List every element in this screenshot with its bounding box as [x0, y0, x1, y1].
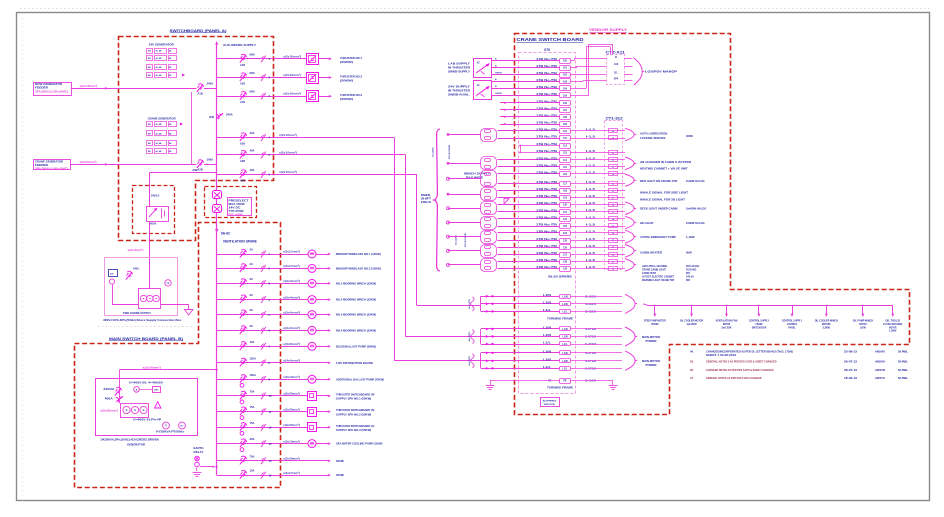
svg-text:40A: 40A — [250, 149, 255, 153]
svg-text:L1/B: L1/B — [562, 336, 567, 339]
svg-text:x(3x2.5mm²): x(3x2.5mm²) — [283, 250, 300, 254]
svg-text:A L 4B: A L 4B — [156, 50, 163, 53]
svg-text:X70: X70 — [544, 48, 550, 52]
svg-text:6A: 6A — [250, 277, 253, 281]
svg-text:240/2A: 240/2A — [103, 388, 114, 391]
svg-text:75A: 75A — [250, 389, 255, 393]
svg-text:L1/B: L1/B — [543, 358, 551, 361]
svg-text:L1/B: L1/B — [543, 334, 551, 337]
svg-text:TURNING FRAME: TURNING FRAME — [547, 387, 574, 390]
svg-text:17B No./TB: 17B No./TB — [536, 171, 557, 175]
svg-text:1,1KW: 1,1KW — [686, 235, 695, 239]
svg-text:L1/N: L1/N — [562, 328, 567, 331]
svg-text:HEATING CABINET + VALVE UNIT: HEATING CABINET + VALVE UNIT — [640, 167, 688, 171]
svg-text:U=400V 41-Ph-4P: U=400V 41-Ph-4P — [133, 419, 162, 422]
svg-text:x(3x35mm²): x(3x35mm²) — [283, 457, 300, 461]
svg-text:24V GENERATOR: 24V GENERATOR — [149, 43, 175, 47]
svg-text:17B No./TB: 17B No./TB — [536, 187, 557, 191]
svg-text:2x1,5(2C): 2x1,5(2C) — [433, 147, 435, 157]
svg-text:160A: 160A — [250, 373, 256, 377]
svg-text:4x1,5(2C): 4x1,5(2C) — [468, 331, 471, 341]
svg-text:CRANE CABIN LIGHT: CRANE CABIN LIGHT — [642, 268, 666, 271]
svg-text:125A: 125A — [250, 356, 256, 360]
svg-text:x(3x35mm²): x(3x35mm²) — [283, 423, 300, 427]
svg-text:BK: BK — [148, 67, 151, 69]
svg-text:x(3x6mm²): x(3x6mm²) — [283, 342, 300, 346]
svg-text:SHIFT: SHIFT — [421, 198, 432, 201]
svg-text:41: 41 — [615, 56, 618, 59]
svg-text:127: 127 — [563, 254, 568, 257]
svg-text:A1B: A1B — [240, 101, 245, 104]
svg-text:A L 4B: A L 4B — [156, 66, 163, 69]
svg-text:MIDSHIP WINDLASS NO.1 (15KW): MIDSHIP WINDLASS NO.1 (15KW) — [336, 252, 381, 256]
svg-text:4K: 4K — [169, 50, 172, 53]
svg-text:RED LIGHT ON CRANE TOP: RED LIGHT ON CRANE TOP — [640, 179, 678, 183]
svg-text:BK: BK — [148, 124, 151, 126]
svg-text:L1/B: L1/B — [562, 360, 567, 363]
svg-text:A2B: A2B — [240, 180, 245, 183]
svg-text:OIL TOOLS/: OIL TOOLS/ — [886, 319, 901, 323]
svg-text:CABIN HEATER: CABIN HEATER — [640, 251, 662, 255]
svg-text:SHEET 1 04-08-2013: SHEET 1 04-08-2013 — [706, 353, 737, 357]
svg-text:MOTOR: MOTOR — [889, 325, 896, 329]
svg-text:115: 115 — [563, 166, 568, 169]
svg-text:VENTILATION FAN: VENTILATION FAN — [716, 319, 738, 323]
svg-text:BK: BK — [148, 58, 151, 60]
svg-text:L1/L: L1/L — [543, 366, 552, 369]
svg-text:75A: 75A — [250, 454, 255, 458]
svg-text:113: 113 — [563, 152, 568, 155]
svg-text:106: 106 — [563, 102, 568, 105]
svg-text:SEA WATER COOLING PUMP (11KW): SEA WATER COOLING PUMP (11KW) — [336, 442, 382, 446]
svg-text:MAIN MOTOR: MAIN MOTOR — [642, 336, 660, 339]
svg-text:4K: 4K — [169, 123, 172, 126]
svg-text:BK: BK — [148, 75, 151, 77]
svg-text:SWBD-AUXIL.: SWBD-AUXIL. — [448, 93, 470, 96]
svg-text:S-271M: S-271M — [585, 367, 596, 370]
svg-text:107: 107 — [563, 109, 568, 112]
svg-text:122: 122 — [563, 218, 568, 221]
svg-text:A1B: A1B — [240, 64, 245, 67]
svg-text:(20KW): (20KW) — [340, 60, 353, 64]
svg-text:75A: 75A — [250, 405, 255, 409]
svg-text:240A: 240A — [226, 113, 233, 117]
svg-text:FWD SHORE SUPPLY: FWD SHORE SUPPLY — [123, 311, 151, 315]
svg-text:RELAY: RELAY — [194, 451, 205, 454]
svg-text:TURNING FRAME: TURNING FRAME — [547, 318, 574, 321]
svg-text:AUTO LUBRICATION: AUTO LUBRICATION — [640, 132, 667, 136]
svg-text:100A: 100A — [207, 158, 214, 162]
svg-text:OIL COOLER MOTOR: OIL COOLER MOTOR — [680, 319, 703, 323]
svg-text:NO.1 MOORING WINCH (22KW): NO.1 MOORING WINCH (22KW) — [336, 281, 376, 285]
svg-text:9A-92: 9A-92 — [221, 232, 230, 236]
svg-text:LAB SUPPLY: LAB SUPPLY — [448, 63, 470, 66]
svg-text:BK: BK — [148, 51, 151, 53]
svg-text:123: 123 — [563, 225, 568, 228]
svg-text:100: 100 — [563, 60, 568, 63]
svg-text:x(2x10mm²): x(2x10mm²) — [279, 151, 297, 155]
svg-text:04.: 04. — [690, 350, 694, 354]
svg-text:x(2x16mm²): x(2x16mm²) — [143, 365, 161, 369]
svg-text:121: 121 — [563, 211, 568, 214]
svg-text:4x1,5(2C): 4x1,5(2C) — [468, 356, 471, 366]
svg-text:N5A: N5A — [250, 90, 255, 94]
svg-text:118: 118 — [563, 190, 568, 193]
svg-text:101: 101 — [563, 67, 568, 70]
svg-text:SUNIL: SUNIL — [898, 350, 908, 354]
svg-text:2x40W HALOG: 2x40W HALOG — [686, 179, 705, 183]
svg-text:Hz: Hz — [181, 426, 185, 428]
svg-text:GN/YE: GN/YE — [495, 93, 502, 95]
svg-text:11KW: 11KW — [860, 325, 866, 329]
svg-text:128: 128 — [563, 261, 568, 264]
svg-text:G: G — [126, 409, 128, 412]
svg-text:MOTOR: MOTOR — [859, 322, 866, 326]
svg-text:A: A — [136, 388, 138, 391]
svg-text:24V DC: 24V DC — [229, 207, 242, 210]
svg-text:4x1,5(2C): 4x1,5(2C) — [468, 299, 471, 309]
svg-text:VENTILATION SPARE: VENTILATION SPARE — [223, 240, 258, 244]
svg-text:6A: 6A — [250, 293, 253, 297]
svg-text:N5A: N5A — [250, 71, 255, 75]
svg-text:380V,±10%,3Ph,(50Hz),Shore Sup: 380V,±10%,3Ph,(50Hz),Shore Supply Connec… — [103, 319, 182, 322]
svg-text:117: 117 — [563, 183, 568, 186]
svg-text:BILGE/BALLAST PUMP (30KW): BILGE/BALLAST PUMP (30KW) — [336, 344, 376, 348]
svg-text:DK35KVA,3Ph,(50HZ),415V,DIESEL: DK35KVA,3Ph,(50HZ),415V,DIESELDRIVEN — [101, 439, 159, 442]
svg-text:17B No./TB: 17B No./TB — [536, 201, 557, 205]
svg-text:POWER: POWER — [651, 322, 658, 326]
svg-text:4K: 4K — [169, 66, 172, 69]
svg-text:17B No./TB: 17B No./TB — [536, 180, 557, 184]
svg-text:x(2x16mm²): x(2x16mm²) — [283, 92, 301, 96]
svg-text:L1/B: L1/B — [543, 301, 551, 304]
svg-text:NO.4 MOORING WINCH (22KW): NO.4 MOORING WINCH (22KW) — [336, 328, 376, 332]
svg-text:OIL PUMP WINCH: OIL PUMP WINCH — [853, 319, 873, 323]
svg-text:FIELD: FIELD — [421, 201, 431, 204]
svg-text:17B No./TB: 17B No./TB — [536, 265, 557, 269]
svg-text:40A: 40A — [250, 168, 255, 172]
svg-text:A L 4B: A L 4B — [156, 57, 163, 60]
svg-text:P&S WIRE: P&S WIRE — [466, 177, 484, 180]
svg-text:GENERATOR: GENERATOR — [127, 444, 145, 447]
svg-text:CONTROL: CONTROL — [787, 322, 797, 326]
svg-text:x(2x16mm²): x(2x16mm²) — [283, 73, 301, 77]
svg-text:A L 4B: A L 4B — [156, 150, 163, 153]
svg-text:ANTI-ATOLL HEATING: ANTI-ATOLL HEATING — [642, 265, 667, 268]
svg-text:BK: BK — [148, 151, 151, 153]
svg-text:NO.3 MOORING WINCH (22KW): NO.3 MOORING WINCH (22KW) — [336, 313, 376, 317]
svg-text:SUNIL: SUNIL — [898, 360, 908, 364]
svg-text:CRANE GENERATOR: CRANE GENERATOR — [148, 117, 177, 121]
svg-text:x(3x4mm²): x(3x4mm²) — [283, 295, 300, 299]
svg-text:G: G — [134, 409, 136, 412]
svg-text:4K: 4K — [169, 57, 172, 60]
svg-text:SPARE: SPARE — [336, 473, 344, 477]
svg-text:L1/L: L1/L — [543, 309, 552, 312]
svg-text:L1/L: L1/L — [543, 342, 552, 345]
svg-text:18-06-13: 18-06-13 — [844, 376, 858, 380]
svg-text:1,5KW: 1,5KW — [889, 329, 897, 333]
svg-text:B: B — [495, 86, 497, 88]
svg-text:GENERAL NOTES 2 AS PER DPS CAP: GENERAL NOTES 2 AS PER DPS CAPS & SHEET … — [706, 360, 777, 364]
svg-text:A1B: A1B — [240, 83, 245, 86]
svg-text:AUX./SPARE SUPPLY: AUX./SPARE SUPPLY — [223, 43, 256, 47]
svg-text:240A: 240A — [133, 268, 139, 271]
svg-text:kWh: kWh — [154, 389, 159, 391]
svg-text:PANEL: PANEL — [788, 325, 796, 329]
svg-text:24V SUPPLY: 24V SUPPLY — [448, 85, 470, 88]
svg-text:L1/N: L1/N — [562, 295, 567, 298]
svg-text:WHALE SIGNAL FOR 2B LIGHT: WHALE SIGNAL FOR 2B LIGHT — [640, 198, 685, 202]
svg-text:ANSHU: ANSHU — [875, 360, 885, 364]
svg-text:(20KW): (20KW) — [340, 97, 353, 101]
svg-text:ANSTU: ANSTU — [875, 376, 885, 380]
svg-text:17B No./TB: 17B No./TB — [536, 135, 557, 139]
svg-text:2B LIGHT: 2B LIGHT — [640, 221, 654, 225]
svg-text:03.: 03. — [690, 360, 694, 364]
svg-text:17B No./TB: 17B No./TB — [536, 194, 557, 198]
svg-text:WHALE SIGNAL FOR SIDE LIGHT: WHALE SIGNAL FOR SIDE LIGHT — [640, 191, 688, 195]
svg-text:A2B: A2B — [240, 160, 245, 163]
svg-text:x(3x2.5mm²): x(3x2.5mm²) — [283, 471, 300, 475]
svg-text:17B No./TB: 17B No./TB — [536, 237, 557, 241]
svg-text:17B No./TB: 17B No./TB — [536, 258, 557, 262]
svg-text:L1/N: L1/N — [543, 294, 551, 297]
svg-text:17B No./TB: 17B No./TB — [536, 128, 557, 132]
svg-text:x(3x2.5mm²): x(3x2.5mm²) — [283, 264, 300, 268]
svg-text:110V DISTRIBUTION BOARD: 110V DISTRIBUTION BOARD — [336, 361, 374, 365]
svg-text:GENERAL NOTES AS PER DPS CAPS: GENERAL NOTES AS PER DPS CAPS CHANGED — [706, 376, 762, 380]
svg-text:10A: 10A — [250, 469, 255, 473]
svg-text:109: 109 — [563, 123, 568, 126]
svg-text:119: 119 — [563, 197, 568, 200]
svg-text:MIDSHIP WINDLASS NO.2 (15KW): MIDSHIP WINDLASS NO.2 (15KW) — [336, 266, 381, 270]
svg-text:x(2x4mm²): x(2x4mm²) — [128, 248, 144, 252]
svg-text:6A: 6A — [250, 308, 253, 312]
svg-text:108: 108 — [563, 116, 568, 119]
svg-text:PE: PE — [167, 283, 170, 285]
svg-text:75A: 75A — [250, 421, 255, 425]
svg-text:230V+CLEAN: 230V+CLEAN — [686, 265, 699, 268]
svg-text:SWITCHGEAR: SWITCHGEAR — [752, 325, 767, 329]
svg-text:x(4x4mm²): x(4x4mm²) — [283, 359, 300, 363]
svg-text:2,2KW: 2,2KW — [823, 325, 831, 329]
svg-text:WARNING LIGHT CRANE TOP: WARNING LIGHT CRANE TOP — [642, 279, 674, 282]
svg-text:120: 120 — [563, 204, 568, 207]
svg-text:4x2,2KW: 4x2,2KW — [686, 322, 697, 326]
svg-text:23-08-13: 23-08-13 — [844, 350, 858, 354]
svg-text:4K: 4K — [169, 142, 172, 145]
svg-text:F5Z +60W: F5Z +60W — [229, 214, 244, 216]
svg-text:CT2-X11: CT2-X11 — [606, 51, 625, 55]
svg-text:112: 112 — [563, 145, 568, 148]
svg-text:CHANGED/INCORPORATED AS PER DL: CHANGED/INCORPORATED AS PER DL LETTER 80… — [706, 350, 793, 354]
svg-text:x(3x4mm²): x(3x4mm²) — [283, 279, 300, 283]
svg-text:U=400V 50: 4=400/5A: U=400V 50: 4=400/5A — [129, 382, 163, 385]
svg-text:AB CHARGER IN CABIN S-/SYSTEM: AB CHARGER IN CABIN S-/SYSTEM — [640, 160, 692, 164]
svg-text:400A: 400A — [105, 398, 113, 401]
svg-text:A L 4B: A L 4B — [156, 142, 163, 145]
svg-text:A1B: A1B — [198, 92, 203, 96]
svg-text:A6B: A6B — [192, 168, 197, 172]
svg-text:17B No./TB: 17B No./TB — [536, 230, 557, 234]
svg-text:OIL COOLER WINCH: OIL COOLER WINCH — [815, 319, 838, 323]
svg-text:40A: 40A — [250, 131, 255, 135]
svg-text:102: 102 — [563, 74, 568, 77]
svg-text:A2: A2 — [477, 61, 481, 64]
svg-text:x(2x10mm²): x(2x10mm²) — [279, 170, 297, 174]
svg-text:kW: kW — [110, 274, 114, 276]
svg-text:1A8: 1A8 — [614, 63, 619, 66]
svg-text:10A: 10A — [250, 340, 255, 344]
svg-text:MOTOR: MOTOR — [723, 322, 730, 326]
svg-text:x(2x16mm²): x(2x16mm²) — [80, 84, 98, 88]
svg-text:x(2x35mm²): x(2x35mm²) — [100, 409, 118, 413]
svg-text:EMER.: EMER. — [421, 194, 431, 197]
svg-text:17B No./TB: 17B No./TB — [536, 142, 557, 146]
svg-text:A L 4B: A L 4B — [156, 74, 163, 77]
svg-text:BK: BK — [148, 143, 151, 145]
svg-text:SPARE: SPARE — [336, 459, 344, 463]
svg-text:EARTH: EARTH — [194, 447, 204, 450]
svg-text:129: 129 — [563, 268, 568, 271]
svg-text:SUNIL: SUNIL — [898, 368, 908, 372]
svg-text:IN THRUSTER: IN THRUSTER — [448, 89, 470, 92]
svg-text:x(3x4mm²): x(3x4mm²) — [283, 310, 300, 314]
svg-text:D3-5,KC/BUS: D3-5,KC/BUS — [465, 233, 467, 247]
svg-text:x(3x4mm²): x(3x4mm²) — [283, 326, 300, 330]
svg-text:GN/YE: GN/YE — [495, 73, 502, 75]
svg-text:17B No./TB: 17B No./TB — [536, 251, 557, 255]
svg-text:L1/L: L1/L — [563, 311, 568, 314]
svg-text:L1/B: L1/B — [562, 303, 567, 306]
svg-text:4K: 4K — [169, 74, 172, 77]
svg-text:FEEDER: FEEDER — [35, 164, 48, 167]
svg-text:29-07-13: 29-07-13 — [844, 360, 858, 364]
svg-text:MAIN MOTOR: MAIN MOTOR — [642, 360, 660, 363]
svg-text:2A: 2A — [250, 262, 253, 266]
svg-text:G: G — [143, 409, 145, 412]
svg-text:J5B: J5B — [209, 115, 214, 119]
svg-text:x(2x16mm²): x(2x16mm²) — [283, 54, 301, 58]
svg-text:x(3x10mm²): x(3x10mm²) — [283, 439, 300, 443]
svg-text:A L 4B: A L 4B — [156, 133, 163, 136]
svg-text:ANSHU: ANSHU — [875, 350, 885, 354]
svg-text:111: 111 — [563, 137, 567, 140]
svg-text:17B No./TB: 17B No./TB — [536, 223, 557, 227]
svg-text:IN THRUSTER: IN THRUSTER — [448, 67, 470, 70]
svg-text:4K: 4K — [169, 133, 172, 136]
svg-text:MAX 15KW: MAX 15KW — [229, 203, 246, 206]
svg-text:29,30 SPARE: 29,30 SPARE — [548, 276, 573, 279]
svg-text:17B No./TB: 17B No./TB — [536, 156, 557, 160]
svg-text:L1/L: L1/L — [563, 368, 568, 371]
svg-text:D3-5,KC/BUS: D3-5,KC/BUS — [449, 145, 451, 159]
svg-text:60W: 60W — [686, 272, 690, 275]
svg-text:6P4: 6P4 — [614, 78, 619, 81]
svg-text:x(3x10mm²): x(3x10mm²) — [283, 375, 300, 379]
svg-text:6A: 6A — [250, 324, 253, 328]
svg-text:114: 114 — [563, 159, 568, 162]
svg-text:SUPPLY 3PH NO.2 (55KW): SUPPLY 3PH NO.2 (55KW) — [336, 412, 371, 416]
svg-text:TYP+POW: TYP+POW — [229, 211, 245, 213]
svg-text:B1: B1 — [615, 72, 619, 74]
svg-text:01.: 01. — [690, 376, 694, 380]
svg-text:17B No./TB: 17B No./TB — [536, 216, 557, 220]
svg-text:x(2x10mm²): x(2x10mm²) — [80, 160, 97, 164]
svg-text:3Ph,380V,(±10%,60HZ): 3Ph,380V,(±10%,60HZ) — [35, 92, 68, 94]
svg-text:L1/N: L1/N — [543, 350, 551, 353]
svg-text:103: 103 — [563, 80, 568, 83]
svg-text:ADDITIONAL BALLAST PUMP (75KW): ADDITIONAL BALLAST PUMP (75KW) — [336, 377, 384, 381]
svg-text:FEEDER: FEEDER — [35, 87, 48, 90]
svg-text:V: V — [165, 425, 167, 428]
svg-text:N5A: N5A — [250, 52, 255, 56]
svg-text:DECK LIGHT UNDER CABIN: DECK LIGHT UNDER CABIN — [640, 207, 677, 211]
svg-text:A2B: A2B — [198, 168, 203, 172]
svg-text:x(3x35mm²): x(3x35mm²) — [283, 407, 300, 411]
svg-text:SUNIL: SUNIL — [898, 376, 908, 380]
svg-text:S-271M: S-271M — [585, 336, 596, 339]
svg-text:10: 10 — [269, 394, 272, 398]
svg-text:LOCKING SERVICE: LOCKING SERVICE — [640, 136, 666, 140]
svg-text:CRANE SWITCH BOARD: CRANE SWITCH BOARD — [517, 37, 585, 42]
svg-text:ANSTD: ANSTD — [875, 368, 885, 372]
svg-text:2x60W HALOG: 2x60W HALOG — [686, 221, 705, 225]
svg-text:3Ph,380V,(±10%,60HZ): 3Ph,380V,(±10%,60HZ) — [35, 168, 68, 170]
svg-text:HY35KVA PT/50Hz: HY35KVA PT/50Hz — [156, 431, 185, 434]
svg-text:WINCH SUPPLY: WINCH SUPPLY — [464, 173, 491, 176]
svg-text:24V/1A: 24V/1A — [151, 195, 160, 198]
svg-text:SWBD-SUPPLY: SWBD-SUPPLY — [448, 71, 470, 74]
svg-text:125: 125 — [563, 239, 568, 242]
svg-text:CONTROL SUPPLY: CONTROL SUPPLY — [782, 319, 803, 323]
svg-text:30A: 30A — [250, 437, 255, 441]
svg-text:FEED PUMP MOTOR: FEED PUMP MOTOR — [644, 319, 666, 323]
svg-text:4K: 4K — [169, 150, 172, 153]
svg-text:CT1-312: CT1-312 — [606, 117, 623, 121]
svg-text:A: A — [495, 78, 497, 81]
svg-text:PE: PE — [548, 380, 552, 383]
svg-text:PRESELECT: PRESELECT — [229, 201, 250, 203]
svg-text:240A: 240A — [207, 82, 214, 86]
svg-text:FLEX+MIG: FLEX+MIG — [686, 268, 696, 271]
svg-text:110: 110 — [563, 130, 568, 133]
svg-text:2A: 2A — [250, 248, 253, 252]
svg-text:PE: PE — [563, 380, 567, 383]
svg-text:L1/L: L1/L — [563, 343, 568, 346]
svg-text:LOS/PSV MANOP: LOS/PSV MANOP — [645, 70, 677, 74]
svg-text:(20KW): (20KW) — [340, 79, 353, 83]
svg-text:S-320: S-320 — [585, 310, 597, 313]
svg-text:104: 104 — [563, 87, 568, 90]
svg-text:2kW: 2kW — [686, 251, 692, 255]
svg-text:L1/N: L1/N — [562, 352, 567, 355]
svg-text:A2B: A2B — [240, 143, 245, 146]
svg-text:400W: 400W — [686, 134, 693, 138]
svg-text:CHANGED NOTES AS PER DPS CAPS: CHANGED NOTES AS PER DPS CAPS & SHEET CH… — [706, 368, 774, 372]
svg-text:POWER: POWER — [646, 364, 657, 367]
svg-text:CRANE: CRANE — [755, 322, 762, 326]
svg-text:08-07-13: 08-07-13 — [844, 368, 858, 372]
svg-text:124: 124 — [563, 232, 568, 235]
svg-text:NO.2 MOORING WINCH (22KW): NO.2 MOORING WINCH (22KW) — [336, 298, 376, 302]
svg-text:x(3x35mm²): x(3x35mm²) — [283, 392, 300, 396]
svg-text:AUTOM. EMERGENCY PUMP: AUTOM. EMERGENCY PUMP — [640, 235, 676, 239]
svg-text:L1/N: L1/N — [543, 327, 551, 330]
svg-text:VENDOR SUPPLY: VENDOR SUPPLY — [589, 28, 628, 32]
svg-text:SLIPRING: SLIPRING — [543, 401, 557, 403]
